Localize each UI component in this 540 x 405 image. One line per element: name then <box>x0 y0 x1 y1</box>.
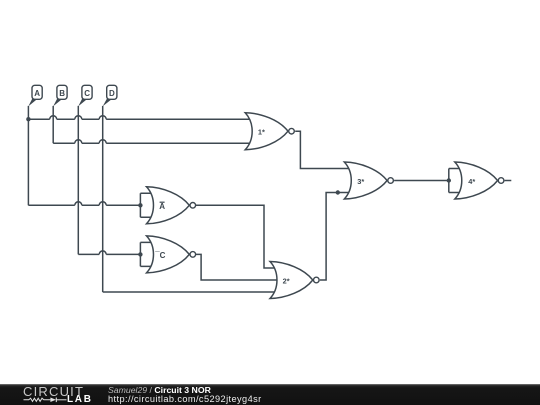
wire A vertical <box>27 106 29 205</box>
wire UA output to gate2 top input <box>196 205 274 268</box>
wire gate1 output to gate3 top input <box>295 131 349 168</box>
hop netA over D <box>99 202 106 205</box>
gate 4* NOR <box>455 162 504 199</box>
wire net2 horizontal to gate1 bottom input <box>53 142 249 144</box>
wire UC output to gate2 middle input <box>196 254 277 280</box>
tie bar gate4 inputs <box>449 169 460 193</box>
svg-text:A: A <box>34 89 40 98</box>
wire net1 horizontal to gate1 top input <box>28 118 249 120</box>
svg-text:¯C: ¯C <box>154 251 165 260</box>
wire D to gate2 bottom input <box>103 291 275 293</box>
flag C <box>78 85 92 106</box>
wire D vertical <box>102 106 104 292</box>
svg-text:2*: 2* <box>283 276 290 285</box>
svg-text:4*: 4* <box>468 177 475 186</box>
wire B vertical <box>52 106 54 143</box>
hop netA over C <box>75 202 82 205</box>
flag B <box>53 85 67 106</box>
junction node UC tie <box>138 252 142 256</box>
wire gate2 output to gate3 bottom input <box>320 193 351 281</box>
flag D <box>103 85 117 106</box>
gate 2* NOR <box>270 262 319 299</box>
hop net2 over D <box>99 140 106 143</box>
gate C-bar NOR inverter <box>147 236 196 273</box>
hop net1 over C <box>75 116 82 119</box>
logo resistor-diode squiggle <box>23 395 69 404</box>
hop net1 over D <box>99 116 106 119</box>
resistor symbol <box>24 398 51 401</box>
svg-text:1*: 1* <box>258 127 265 136</box>
tie bar inverter UA inputs <box>140 193 151 217</box>
wire gate4 output stub <box>505 180 512 182</box>
svg-text:A: A <box>159 202 165 211</box>
overline of A label <box>160 201 165 203</box>
wire C vertical <box>77 106 79 255</box>
wire gate3 output to gate4 <box>394 180 449 182</box>
footer bar <box>0 384 540 405</box>
CircuitLab wordmark <box>23 385 84 398</box>
junction node gate4 tie <box>447 178 451 182</box>
gate 1* NOR <box>245 113 294 150</box>
tie bar inverter UC inputs <box>140 242 151 266</box>
gate A-bar NOR inverter <box>147 187 196 224</box>
gate 3* NOR <box>344 162 393 199</box>
svg-text:B: B <box>59 89 65 98</box>
svg-text:D: D <box>109 89 115 98</box>
wire C to inverter UC <box>78 253 140 255</box>
wire A to inverter UA <box>28 204 140 206</box>
diode symbol <box>50 398 56 403</box>
junction node UA tie <box>138 203 142 207</box>
svg-text:3*: 3* <box>357 177 364 186</box>
hop net1 over B <box>50 116 57 119</box>
junction node gate3 bottom input <box>336 190 340 194</box>
svg-text:C: C <box>84 89 90 98</box>
hop netC over D <box>99 251 106 255</box>
junction node A/net1 <box>26 117 30 121</box>
flag A <box>28 85 42 106</box>
hop net2 over C <box>75 140 82 143</box>
